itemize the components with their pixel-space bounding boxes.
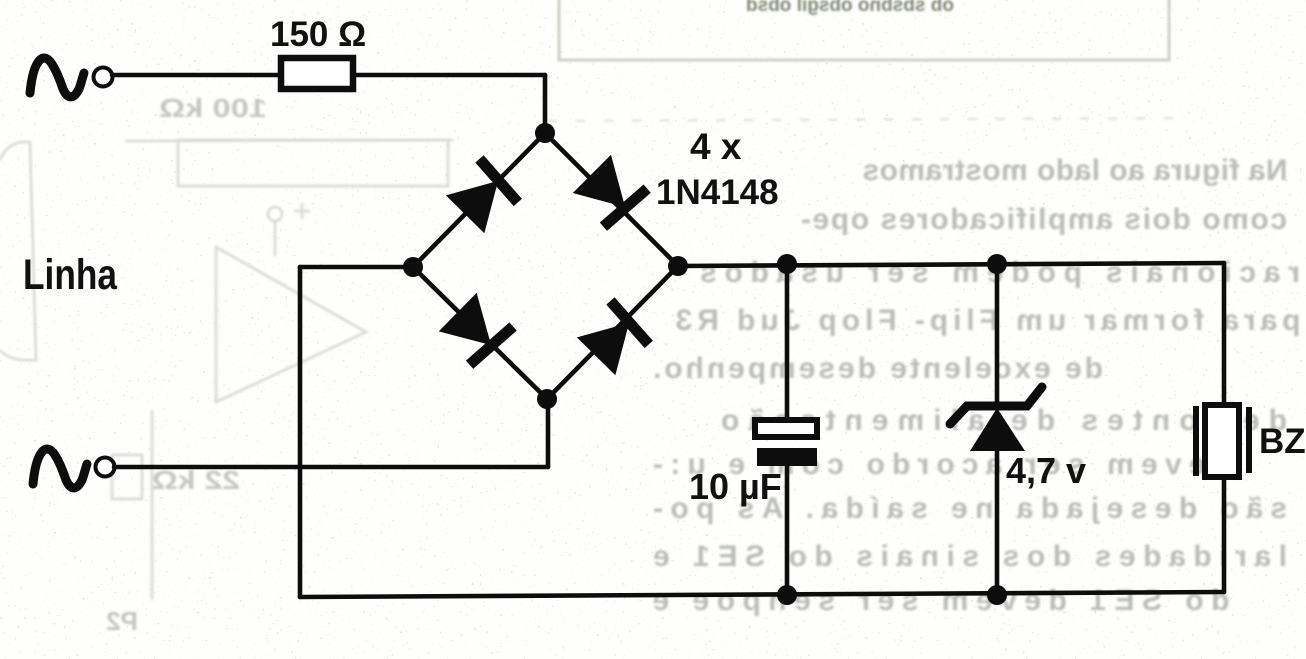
capacitor C1 top plate (outline): [755, 420, 817, 437]
svg-text:ob sbsbno obsgil obsd: ob sbsbno obsgil obsd: [746, 0, 954, 16]
capacitor branch wire top: [785, 264, 790, 421]
diode D4 (bottom-to-right arm): [575, 297, 655, 377]
svg-text:1N4148: 1N4148: [656, 173, 779, 212]
node: top rail at zener: [987, 254, 1007, 274]
ghost box top-right: [548, 0, 1190, 121]
AC source top (sine symbol): [30, 58, 84, 97]
zener branch wire top: [995, 264, 1000, 404]
wire: top rail right node to buzzer corner: [678, 263, 1224, 266]
diode D3 (left-to-bottom arm): [437, 291, 517, 371]
node: bridge left: [403, 257, 423, 277]
diode D1 (left-to-top arm): [444, 155, 524, 235]
wire: bottom terminal to bridge bottom: [114, 465, 548, 470]
svg-text:150 Ω: 150 Ω: [270, 15, 366, 54]
zener diode D5 triangle: [970, 408, 1025, 451]
svg-text:Linha: Linha: [23, 251, 118, 299]
node: bridge right: [668, 256, 688, 276]
svg-text:P2: P2: [106, 606, 138, 636]
buzzer BZ body: [1205, 405, 1239, 477]
svg-text:Na figura ao lado mostramos: Na figura ao lado mostramos: [863, 154, 1288, 187]
terminal bottom (open circle): [96, 458, 115, 477]
buzzer BZ right plate: [1246, 407, 1252, 473]
diode D2 (top-to-right arm): [571, 153, 651, 233]
buzzer branch wire top: [1222, 263, 1227, 407]
svg-text:10 µF: 10 µF: [689, 466, 782, 507]
svg-text:4 x: 4 x: [690, 126, 742, 167]
svg-text:como dois amplificadores ope-: como dois amplificadores ope-: [801, 203, 1287, 236]
bridge arm: left node to bottom node: [413, 267, 547, 399]
AC source bottom (sine symbol): [33, 449, 87, 488]
node: bridge bottom: [537, 389, 557, 409]
bridge arm: left node to top node: [413, 133, 545, 267]
ghost text column right (mirrored): [653, 154, 1301, 617]
buzzer branch wire bottom: [1222, 477, 1227, 592]
svg-text:22 kΩ: 22 kΩ: [152, 465, 240, 495]
bridge arm: bottom node to right node: [547, 266, 678, 399]
node: bottom rail at capacitor: [777, 585, 797, 605]
wire: left node to left riser: [300, 265, 413, 270]
node: top rail at capacitor: [777, 254, 797, 274]
svg-text:BZ: BZ: [1259, 422, 1306, 461]
terminal top (open circle): [94, 68, 113, 87]
wire: resistor to corner: [357, 73, 545, 78]
wire: top terminal to resistor: [112, 73, 278, 78]
wire: up to bridge bottom node: [546, 399, 551, 467]
zener diode D5 bar: [950, 387, 1042, 424]
ghost circuit left: [0, 140, 453, 600]
svg-text:100 kΩ: 100 kΩ: [159, 93, 267, 123]
node: bottom rail at zener: [987, 585, 1007, 605]
bridge arm: top node to right node: [545, 133, 678, 266]
capacitor branch wire bottom: [785, 465, 790, 595]
node: bridge top: [535, 123, 555, 143]
wire: left riser down: [298, 267, 303, 597]
main schematic: [30, 58, 1224, 597]
zener branch wire bottom: [995, 449, 1000, 595]
svg-text:4,7 v: 4,7 v: [1006, 450, 1086, 491]
resistor R 150 ohm body: [281, 58, 353, 89]
buzzer BZ left plate: [1193, 406, 1199, 476]
wire: corner down to bridge top node: [543, 75, 548, 133]
wire: bottom rail: [300, 592, 1224, 597]
capacitor C1 bottom plate (solid): [757, 448, 817, 466]
